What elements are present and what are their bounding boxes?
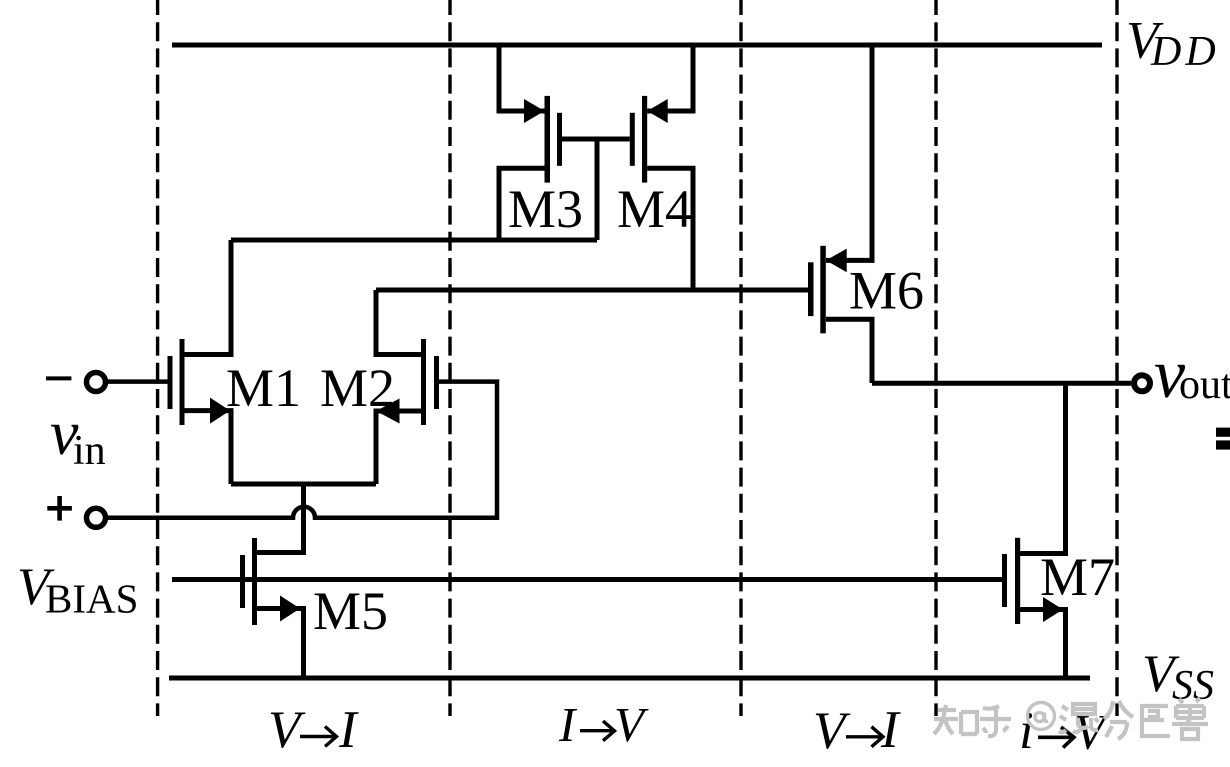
svg-text:M2: M2 bbox=[320, 358, 395, 418]
wire M1 drain up to node A bbox=[185, 240, 232, 355]
label I to V stage 4 bbox=[1019, 702, 1110, 760]
wire M4 gate stub bbox=[597, 137, 630, 142]
wire node B (M2 drain to M4 drain and M6 gate) bbox=[376, 288, 808, 293]
wire output line to vout terminal bbox=[872, 381, 1131, 386]
wire tail (M1/M2 common source) bbox=[231, 482, 376, 487]
svg-text:i: i bbox=[1019, 702, 1034, 760]
transistor M6 gate bar bbox=[808, 262, 814, 316]
wire node A (M1 drain to M3 drain/gate) bbox=[231, 238, 597, 243]
wire M6 source to VDD bbox=[826, 45, 872, 260]
input terminal minus circle bbox=[87, 373, 106, 392]
transistor M2 gate bar bbox=[434, 356, 439, 409]
stage boundary dashed line 2 bbox=[448, 0, 451, 716]
svg-text:I: I bbox=[338, 701, 359, 759]
transistor M1 gate bar bbox=[168, 356, 173, 409]
transistor M5 channel bar bbox=[252, 538, 257, 625]
watermark char hu bbox=[980, 706, 1011, 736]
wire M4 source to VDD bbox=[647, 45, 693, 111]
stage boundary dashed line 3 bbox=[739, 0, 742, 716]
svg-text:V: V bbox=[614, 697, 649, 752]
transistor M6 channel bar bbox=[820, 246, 826, 333]
transistor M3 source arrow bbox=[524, 99, 545, 123]
transistor M1 channel bar bbox=[180, 339, 185, 425]
transistor M5 source arrow bbox=[280, 596, 300, 622]
watermark char at bbox=[1028, 703, 1055, 730]
wire M3 drain down to node A bbox=[499, 168, 545, 240]
watermark char ju bbox=[1142, 706, 1170, 736]
svg-text:V: V bbox=[813, 702, 851, 760]
svg-text:M1: M1 bbox=[226, 358, 301, 418]
svg-text:in: in bbox=[73, 428, 106, 474]
svg-text:SS: SS bbox=[1172, 663, 1214, 709]
input terminal plus circle bbox=[87, 508, 106, 527]
transistor M7 gate bar bbox=[1002, 554, 1007, 607]
transistor M4 gate bar bbox=[630, 113, 635, 166]
transistor M7 channel bar bbox=[1015, 538, 1020, 624]
plus sign bbox=[47, 496, 72, 521]
stage boundary dashed line 4 bbox=[934, 0, 937, 716]
transistor M7 source arrow bbox=[1043, 597, 1063, 622]
label V to I stage 1 bbox=[268, 701, 359, 759]
transistor M1 source arrow bbox=[210, 398, 230, 424]
minus sign bbox=[46, 376, 71, 380]
watermark char shou bbox=[1172, 698, 1208, 739]
svg-text:M5: M5 bbox=[313, 581, 388, 641]
stage boundary dashed line 1 bbox=[156, 0, 159, 716]
wire M1 source down to tail bbox=[185, 411, 232, 484]
VSS rail bbox=[169, 676, 1090, 681]
svg-text:I: I bbox=[558, 697, 578, 752]
svg-text:I: I bbox=[880, 701, 901, 759]
transistor M5 gate bar bbox=[240, 555, 245, 608]
watermark zhihu text (simplified vector glyphs) bbox=[934, 698, 1208, 739]
watermark char fen bbox=[1104, 701, 1133, 739]
transistor M6 source arrow bbox=[826, 249, 847, 273]
wire M2 drain up to node B bbox=[376, 290, 421, 355]
svg-text:DD: DD bbox=[1150, 29, 1220, 75]
wire M3/M4 gates down to node A bbox=[595, 139, 600, 240]
watermark char zhi bbox=[934, 705, 958, 734]
svg-text:V: V bbox=[268, 701, 306, 759]
svg-text:M7: M7 bbox=[1040, 547, 1115, 607]
wire M3 source to VDD bbox=[499, 45, 545, 111]
watermark char hun bbox=[1059, 704, 1098, 732]
transistor M2 source arrow bbox=[376, 399, 400, 424]
wire VBIAS rail to M5 and M7 gates bbox=[172, 577, 1002, 582]
stage boundary dashed line 5 bbox=[1115, 0, 1118, 716]
wire M2 source down to tail bbox=[376, 411, 421, 484]
svg-text:M6: M6 bbox=[849, 261, 924, 321]
wire tail down to M5 drain bbox=[257, 484, 304, 553]
equals sign fragment at right edge bbox=[1216, 428, 1230, 437]
transistor M2 channel bar bbox=[421, 339, 426, 425]
wire M6 drain down to output line bbox=[826, 319, 872, 383]
svg-text:M4: M4 bbox=[617, 179, 692, 239]
svg-text:M3: M3 bbox=[508, 179, 583, 239]
wire output down to M7 drain bbox=[1020, 383, 1066, 553]
VDD rail bbox=[172, 43, 1102, 48]
svg-text:BIAS: BIAS bbox=[45, 576, 138, 622]
transistor M3 channel bar bbox=[545, 96, 551, 183]
label V to I stage 3 bbox=[813, 701, 901, 760]
label I to V stage 2 bbox=[558, 697, 649, 752]
transistor M3 gate bar bbox=[557, 113, 562, 166]
output terminal vout circle bbox=[1134, 375, 1150, 391]
wire M4 drain down to node B bbox=[647, 168, 693, 290]
transistor M4 channel bar bbox=[642, 96, 647, 183]
wire M5 source to VSS bbox=[257, 609, 304, 679]
wire M3 gate stub bbox=[562, 137, 597, 142]
svg-text:out: out bbox=[1179, 362, 1230, 408]
wire minus input to M1 gate bbox=[106, 379, 168, 384]
wire plus input to M2 gate (with hop over tail wire) bbox=[106, 382, 497, 518]
transistor M4 source arrow bbox=[647, 99, 668, 123]
wire M7 source to VSS bbox=[1020, 610, 1066, 679]
